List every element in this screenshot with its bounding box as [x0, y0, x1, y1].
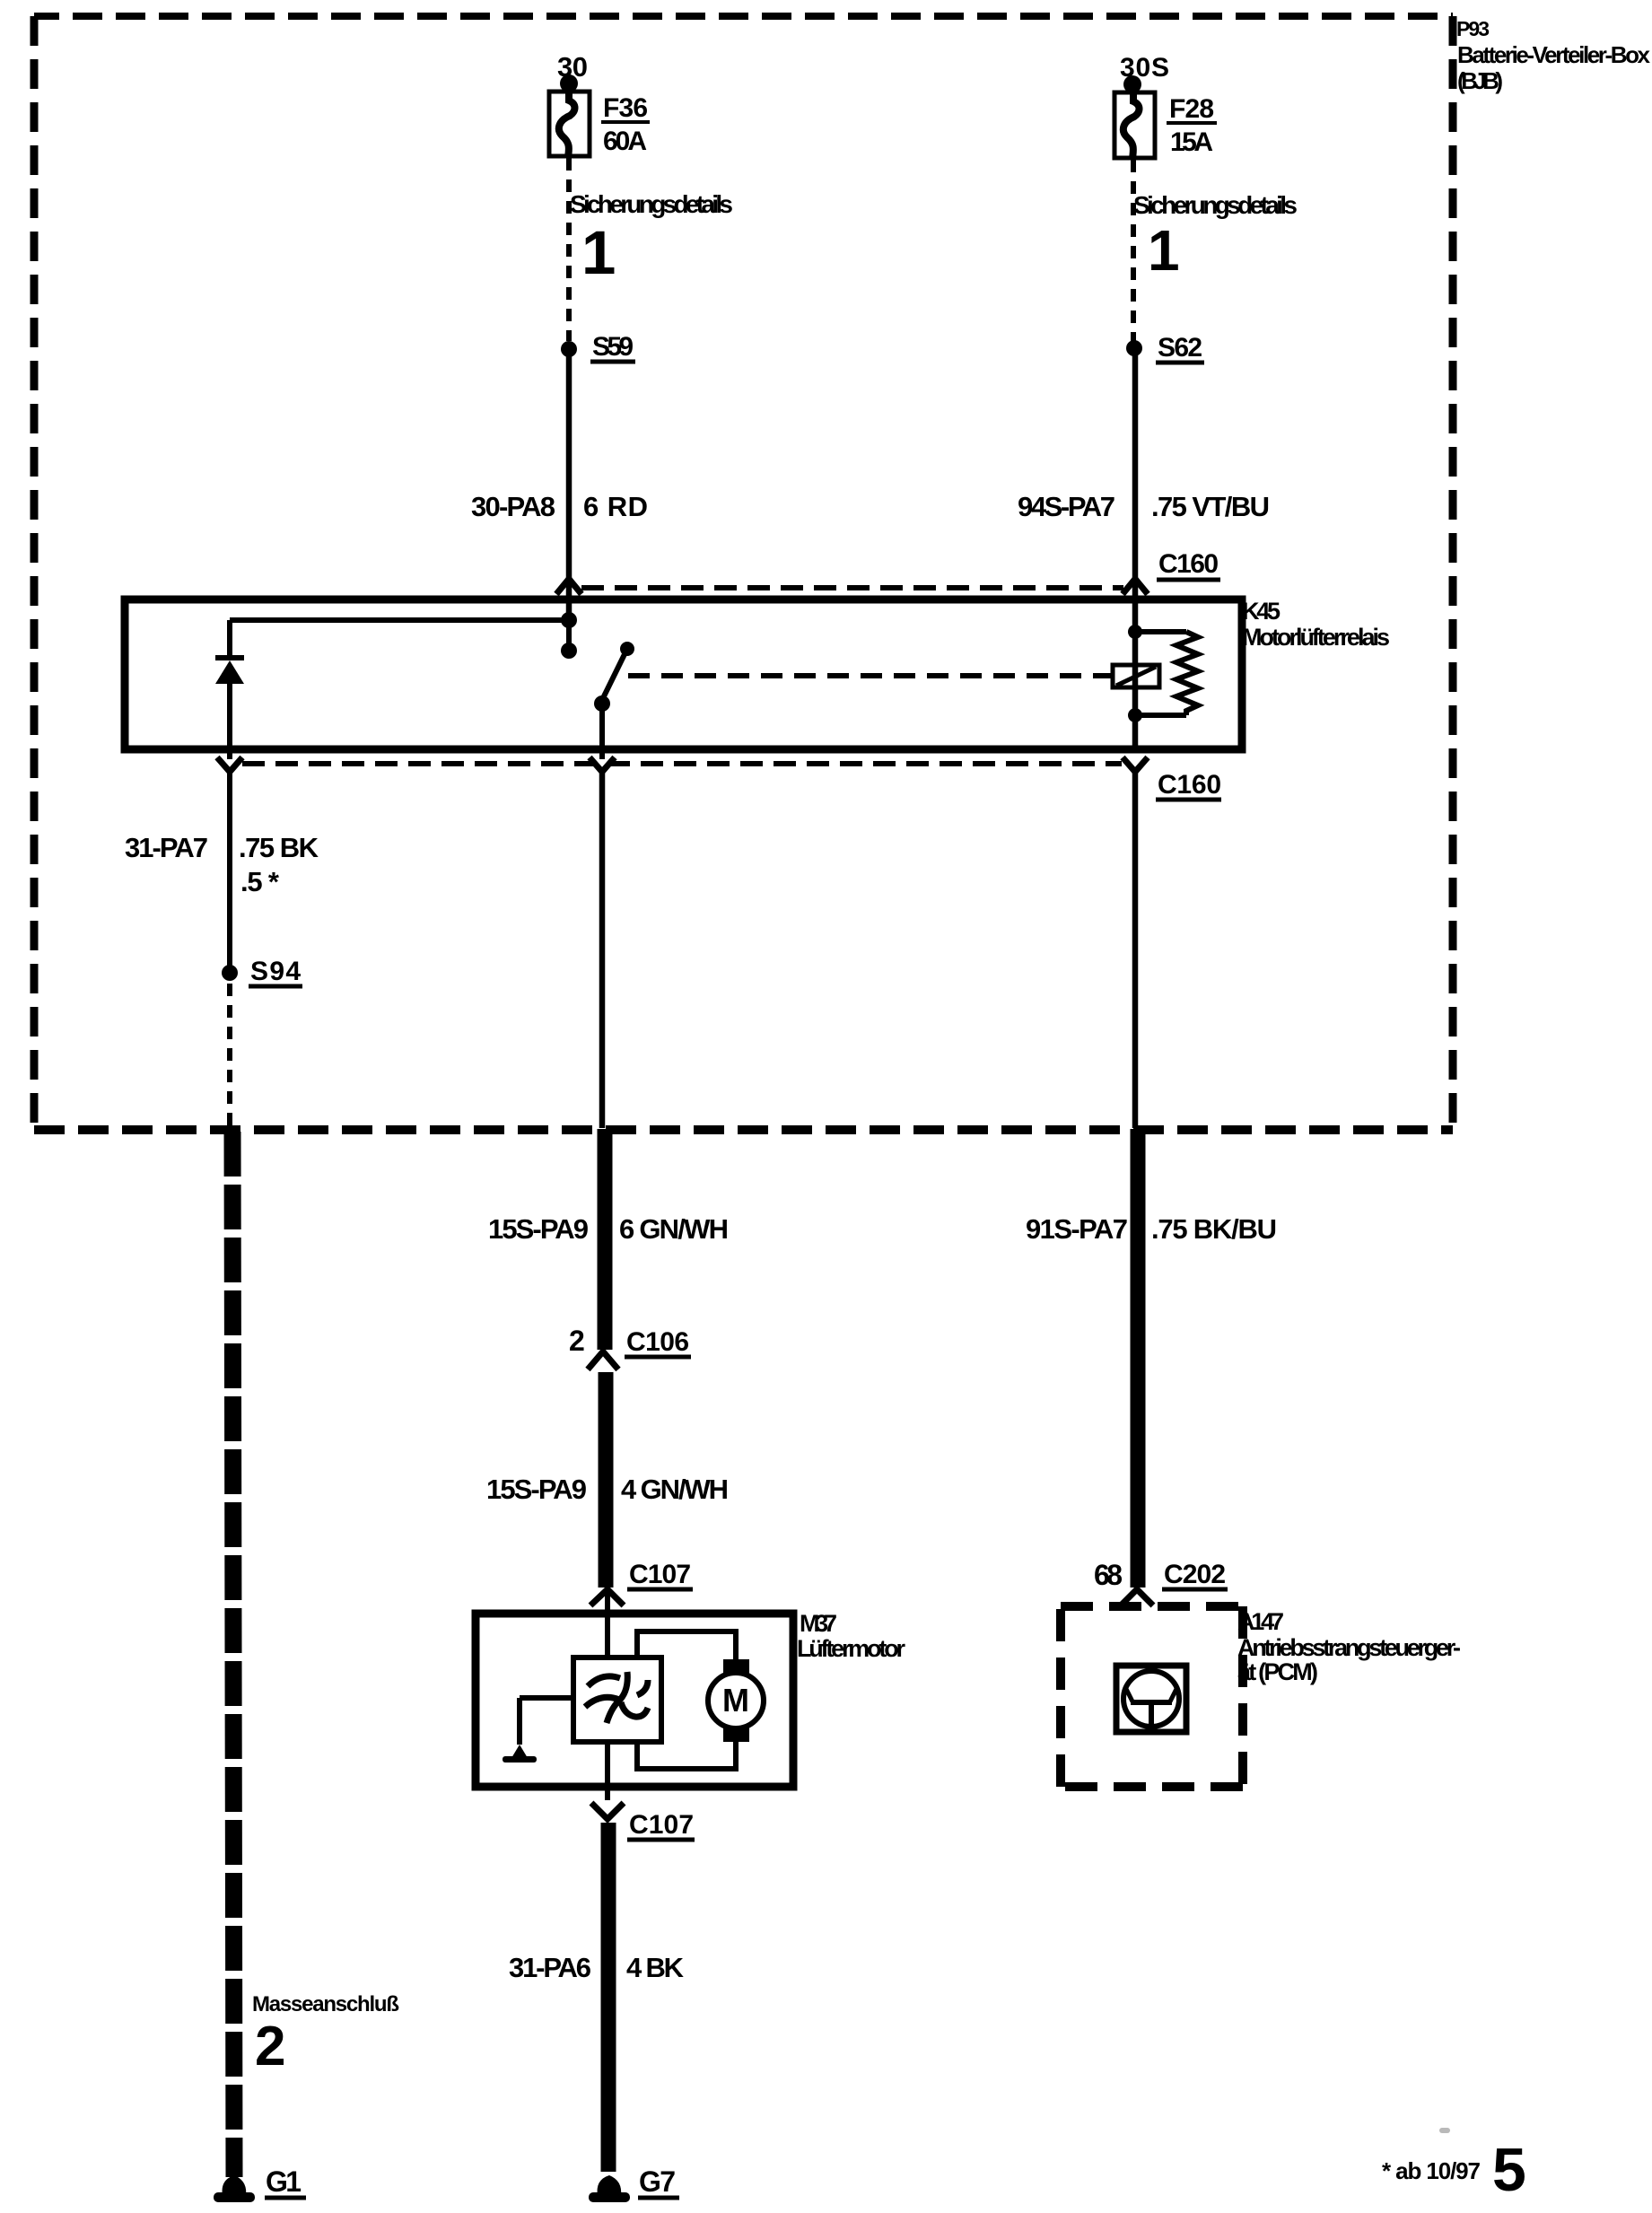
wire heavy center 4 GN/WH — [599, 1372, 614, 1588]
svg-text:4 GN/WH: 4 GN/WH — [621, 1474, 729, 1505]
svg-text:C107: C107 — [629, 1560, 691, 1589]
PCM inner module square — [1116, 1666, 1186, 1732]
wire heavy center 6 GN/WH — [598, 1129, 613, 1350]
arrow up right wire C160 — [1123, 579, 1148, 594]
svg-text:S94: S94 — [250, 957, 301, 986]
svg-text:M: M — [722, 1682, 749, 1719]
internal ground branch M37 — [503, 1698, 573, 1763]
label M37 Lüftermotor — [797, 1610, 905, 1662]
wire switched output to BJB edge — [599, 767, 606, 1128]
wire ground branch below relay — [227, 767, 232, 966]
ground G7 — [589, 2165, 679, 2202]
wire thin dashed S94 to BJB edge — [227, 984, 232, 1128]
switch lever — [602, 652, 625, 700]
arrow down coil wire C160 — [1123, 757, 1148, 772]
svg-text:1: 1 — [1148, 218, 1180, 283]
PCM module symbol — [1123, 1671, 1179, 1727]
svg-text:1: 1 — [581, 218, 616, 287]
arrow down switched wire C160 — [590, 757, 615, 772]
wire heavy 4 BK to G7 — [601, 1823, 616, 2172]
svg-text:P93: P93 — [1456, 17, 1490, 40]
wire dashed F28 to S62 — [1131, 160, 1136, 341]
coil bottom node — [1128, 708, 1142, 722]
motor loop wiring — [637, 1631, 736, 1769]
node 30 — [557, 51, 588, 92]
svg-text:.5 *: .5 * — [240, 866, 280, 897]
svg-text:15A: 15A — [1170, 127, 1213, 157]
wire relay inner horizontal to diode — [230, 617, 569, 623]
wire S62 to C160 — [1132, 355, 1139, 595]
wire relay feed entering top — [566, 595, 573, 620]
motor M circle — [708, 1659, 764, 1742]
svg-text:Masseanschluß: Masseanschluß — [252, 1992, 399, 2016]
wire dashed F36 to S59 — [566, 158, 572, 341]
node 30S — [1120, 53, 1169, 93]
wire coil feed right — [1132, 595, 1139, 753]
splice S59 — [561, 332, 635, 362]
svg-text:G1: G1 — [266, 2165, 302, 2198]
switch contact pivot — [620, 642, 634, 656]
label A147 Antriebsstrangsteuergerät (PCM) — [1237, 1608, 1461, 1685]
switch output node — [594, 695, 610, 712]
relay control dashed link — [628, 673, 1111, 678]
svg-text:(BJB): (BJB) — [1457, 67, 1503, 94]
svg-text:F28: F28 — [1169, 94, 1214, 124]
svg-text:Sicherungsdetails: Sicherungsdetails — [570, 190, 733, 218]
relay coil K45 — [1135, 632, 1198, 715]
svg-text:60A: 60A — [603, 127, 647, 156]
connector C106 arrow — [588, 1351, 618, 1369]
svg-text:2: 2 — [569, 1325, 585, 1357]
fan impeller box — [573, 1658, 661, 1742]
svg-text:2: 2 — [255, 2016, 285, 2077]
label C107 top — [627, 1560, 693, 1589]
svg-text:.75 BK/BU: .75 BK/BU — [1151, 1213, 1277, 1245]
wire switch to box bottom — [599, 704, 605, 759]
connector C160 bottom dashed plane — [242, 761, 1122, 766]
arrow up left wire C160 — [556, 579, 581, 594]
svg-text:31-PA7: 31-PA7 — [125, 832, 208, 863]
BJB box P93 dashed border — [34, 16, 1453, 1130]
connector C107 arrow bottom — [591, 1803, 624, 1819]
scan speck — [1439, 2128, 1450, 2133]
svg-text:S62: S62 — [1158, 333, 1202, 363]
connector C160 bottom label — [1156, 770, 1221, 800]
label C107 bottom — [627, 1810, 695, 1840]
coil top node — [1128, 625, 1142, 639]
svg-text:4 BK: 4 BK — [626, 1952, 685, 1983]
label K45 Motorlüfterrelais — [1242, 598, 1390, 651]
svg-text:94S-PA7: 94S-PA7 — [1018, 491, 1115, 522]
label F36 60A — [601, 93, 650, 156]
fan impeller blades — [585, 1672, 648, 1723]
relay solenoid symbol — [1113, 665, 1159, 687]
svg-text:.75 VT/BU: .75 VT/BU — [1151, 491, 1270, 522]
svg-text:5: 5 — [1492, 2136, 1526, 2204]
splice S94 — [222, 957, 302, 986]
svg-text:A147: A147 — [1237, 1608, 1284, 1635]
label C202 — [1162, 1560, 1228, 1589]
arrow down diode wire C160 — [217, 757, 242, 772]
connector C202 arrow — [1121, 1589, 1153, 1605]
svg-text:C107: C107 — [629, 1810, 694, 1840]
diode D1 — [215, 620, 244, 759]
junction node on feed — [561, 612, 577, 628]
label F28 15A — [1167, 94, 1217, 157]
fuse F28 — [1114, 92, 1155, 159]
relay K45 box — [125, 599, 1242, 749]
svg-text:6 RD: 6 RD — [583, 491, 648, 522]
PCM A147 dashed box — [1061, 1606, 1243, 1787]
connector C160 top dashed plane — [581, 585, 1123, 590]
svg-text:Motorlüfterrelais: Motorlüfterrelais — [1242, 624, 1390, 651]
wire coil output to BJB edge — [1132, 767, 1139, 1128]
svg-text:C202: C202 — [1164, 1560, 1226, 1589]
fuse F36 — [549, 92, 590, 158]
svg-text:K45: K45 — [1242, 598, 1281, 625]
svg-text:M37: M37 — [800, 1610, 837, 1637]
connector C160 top label — [1157, 549, 1220, 580]
svg-text:C160: C160 — [1158, 549, 1219, 579]
svg-text:Antriebsstrangsteuerger-: Antriebsstrangsteuerger- — [1237, 1634, 1461, 1661]
svg-text:30-PA8: 30-PA8 — [471, 491, 555, 522]
svg-text:.75 BK: .75 BK — [239, 832, 319, 863]
svg-text:G7: G7 — [639, 2165, 676, 2198]
splice S62 — [1126, 333, 1204, 363]
fan motor M37 box — [476, 1614, 793, 1787]
svg-text:Lüftermotor: Lüftermotor — [797, 1635, 905, 1662]
svg-text:F36: F36 — [603, 93, 648, 123]
svg-text:68: 68 — [1094, 1559, 1123, 1591]
label P93 Batterie-Verteiler-Box (BJB) — [1456, 17, 1651, 94]
svg-text:Sicherungsdetails: Sicherungsdetails — [1133, 191, 1298, 219]
svg-text:S59: S59 — [592, 332, 634, 362]
wire out of M37 — [605, 1742, 610, 1800]
connector C107 arrow top — [590, 1589, 624, 1605]
svg-text:Batterie-Verteiler-Box: Batterie-Verteiler-Box — [1457, 41, 1651, 68]
wire S59 to C160 — [566, 355, 573, 595]
svg-text:ät (PCM): ät (PCM) — [1237, 1658, 1318, 1685]
wire into M37 — [605, 1591, 610, 1658]
svg-text:6 GN/WH: 6 GN/WH — [619, 1213, 729, 1245]
wire heavy right .75 BK/BU — [1131, 1129, 1146, 1588]
svg-text:15S-PA9: 15S-PA9 — [488, 1213, 589, 1245]
svg-text:91S-PA7: 91S-PA7 — [1026, 1213, 1128, 1245]
svg-text:C160: C160 — [1158, 770, 1221, 800]
svg-text:* ab 10/97: * ab 10/97 — [1382, 2157, 1481, 2184]
svg-text:15S-PA9: 15S-PA9 — [486, 1474, 587, 1505]
svg-text:31-PA6: 31-PA6 — [509, 1952, 591, 1983]
svg-text:C106: C106 — [626, 1327, 689, 1357]
wire heavy dashed ground to G1 — [232, 1132, 234, 2177]
ground G1 — [214, 2165, 306, 2202]
relay common terminal stub — [566, 620, 572, 644]
label C106 — [625, 1327, 691, 1357]
